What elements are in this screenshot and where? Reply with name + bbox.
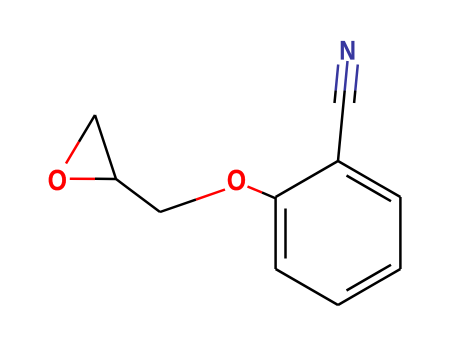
svg-text:O: O bbox=[48, 164, 67, 196]
svg-text:O: O bbox=[227, 164, 246, 196]
svg-text:N: N bbox=[339, 36, 356, 66]
